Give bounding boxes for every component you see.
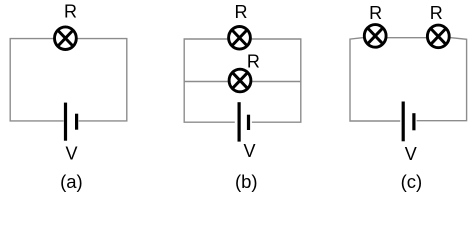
svg-text:R: R [430, 3, 443, 23]
lamp R right (c) [427, 25, 449, 48]
wire: loop of circuit (c) with gap for battery [350, 38, 467, 121]
lamp R left (c) [364, 25, 386, 48]
svg-text:(a): (a) [60, 171, 83, 192]
battery cell V (b): long plate [238, 102, 241, 141]
lamp R top (b) [229, 27, 251, 50]
battery cell V (a): short plate [75, 114, 78, 130]
svg-text:R: R [247, 52, 260, 72]
svg-text:V: V [405, 144, 417, 164]
wire: outer loop of circuit (b) with gap for battery [184, 39, 301, 122]
battery cell V (c): long plate [402, 102, 405, 142]
svg-text:V: V [65, 144, 77, 164]
battery cell V (c): short plate [412, 113, 415, 130]
svg-text:R: R [235, 2, 248, 22]
svg-text:R: R [64, 1, 77, 21]
svg-text:(b): (b) [235, 171, 258, 192]
svg-text:R: R [369, 3, 382, 23]
svg-text:V: V [243, 141, 255, 161]
svg-text:(c): (c) [401, 171, 423, 192]
battery cell V (a): long plate [64, 103, 67, 141]
wire: loop of circuit (a) with gap for battery [10, 39, 127, 121]
wire: middle parallel branch (b) [184, 81, 301, 83]
battery cell V (b): short plate [247, 115, 250, 130]
lamp R (a) [55, 27, 77, 50]
lamp R middle (b) [229, 69, 251, 92]
